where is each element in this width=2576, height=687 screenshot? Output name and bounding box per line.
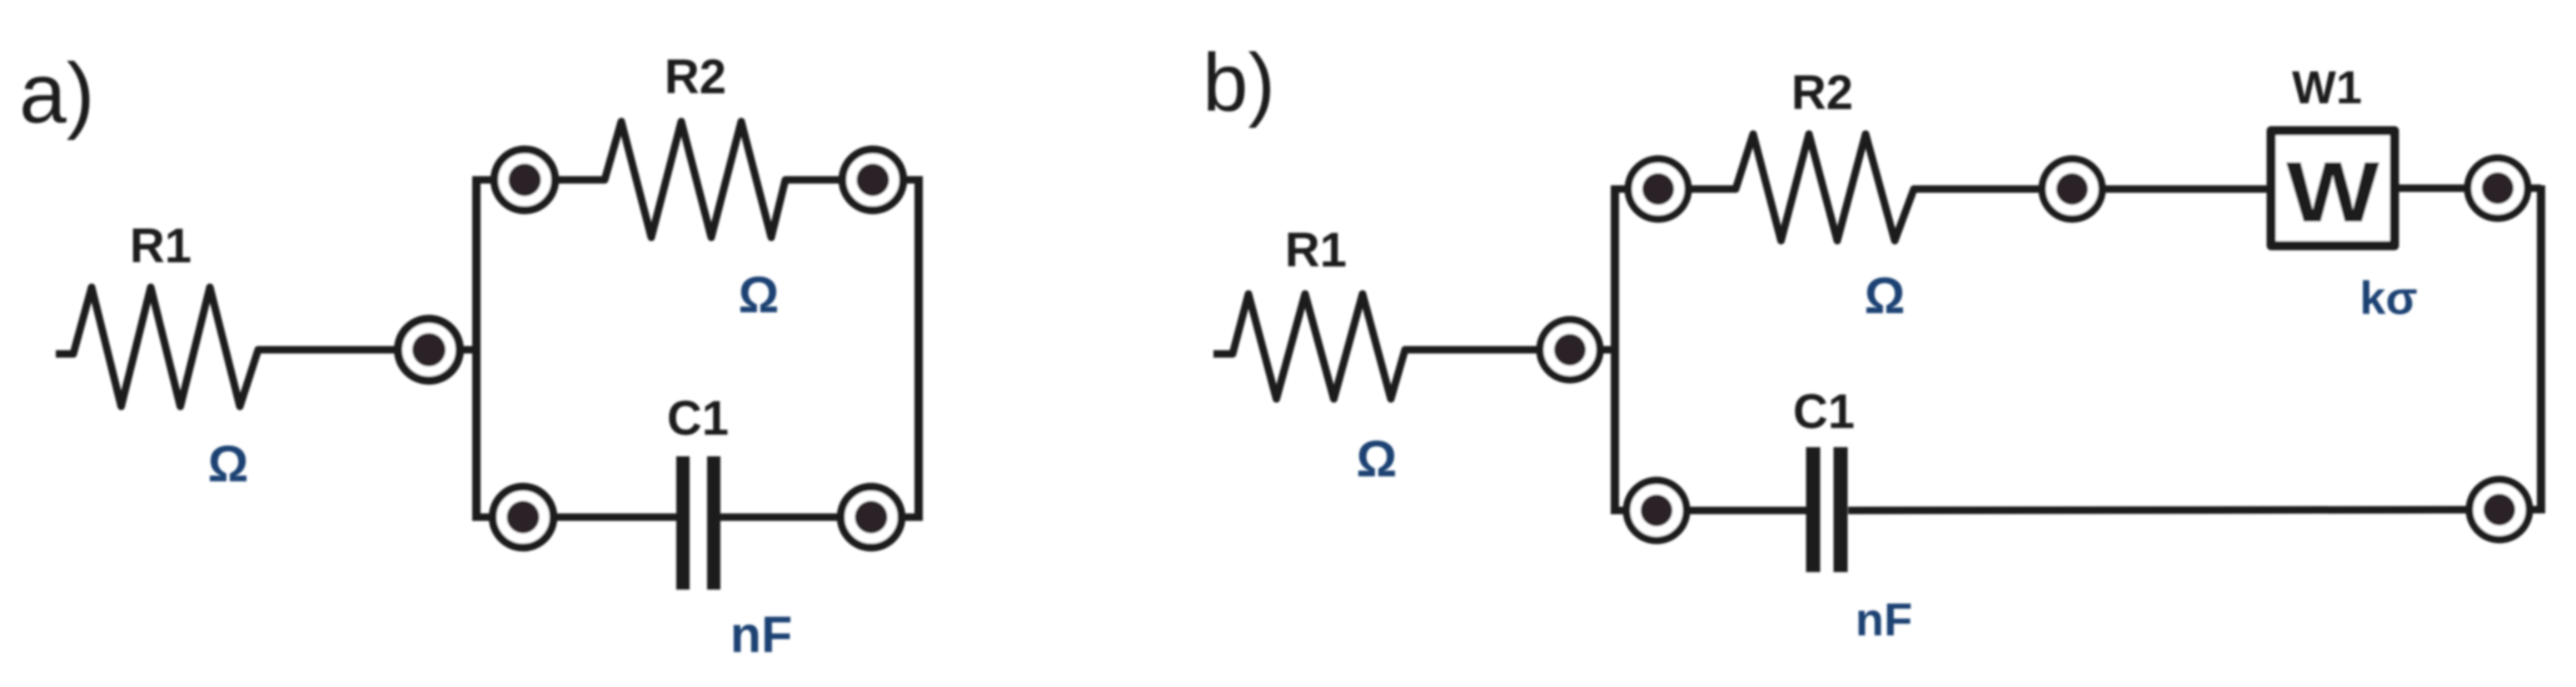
svg-text:Ω: Ω bbox=[1357, 431, 1398, 487]
svg-text:W: W bbox=[2286, 144, 2380, 240]
svg-text:b): b) bbox=[1203, 37, 1275, 128]
svg-text:C1: C1 bbox=[667, 391, 729, 446]
svg-text:Ω: Ω bbox=[208, 436, 249, 492]
svg-text:R2: R2 bbox=[1791, 66, 1853, 120]
svg-text:R1: R1 bbox=[1285, 223, 1347, 277]
svg-text:Ω: Ω bbox=[1865, 267, 1906, 324]
svg-text:R2: R2 bbox=[665, 50, 726, 104]
svg-text:R1: R1 bbox=[130, 219, 192, 273]
svg-text:nF: nF bbox=[1856, 593, 1912, 645]
svg-text:kσ: kσ bbox=[2359, 271, 2417, 324]
svg-text:Ω: Ω bbox=[739, 266, 780, 323]
svg-text:a): a) bbox=[19, 46, 95, 141]
svg-text:nF: nF bbox=[730, 606, 793, 663]
svg-text:W1: W1 bbox=[2292, 61, 2362, 113]
svg-text:C1: C1 bbox=[1793, 385, 1855, 439]
